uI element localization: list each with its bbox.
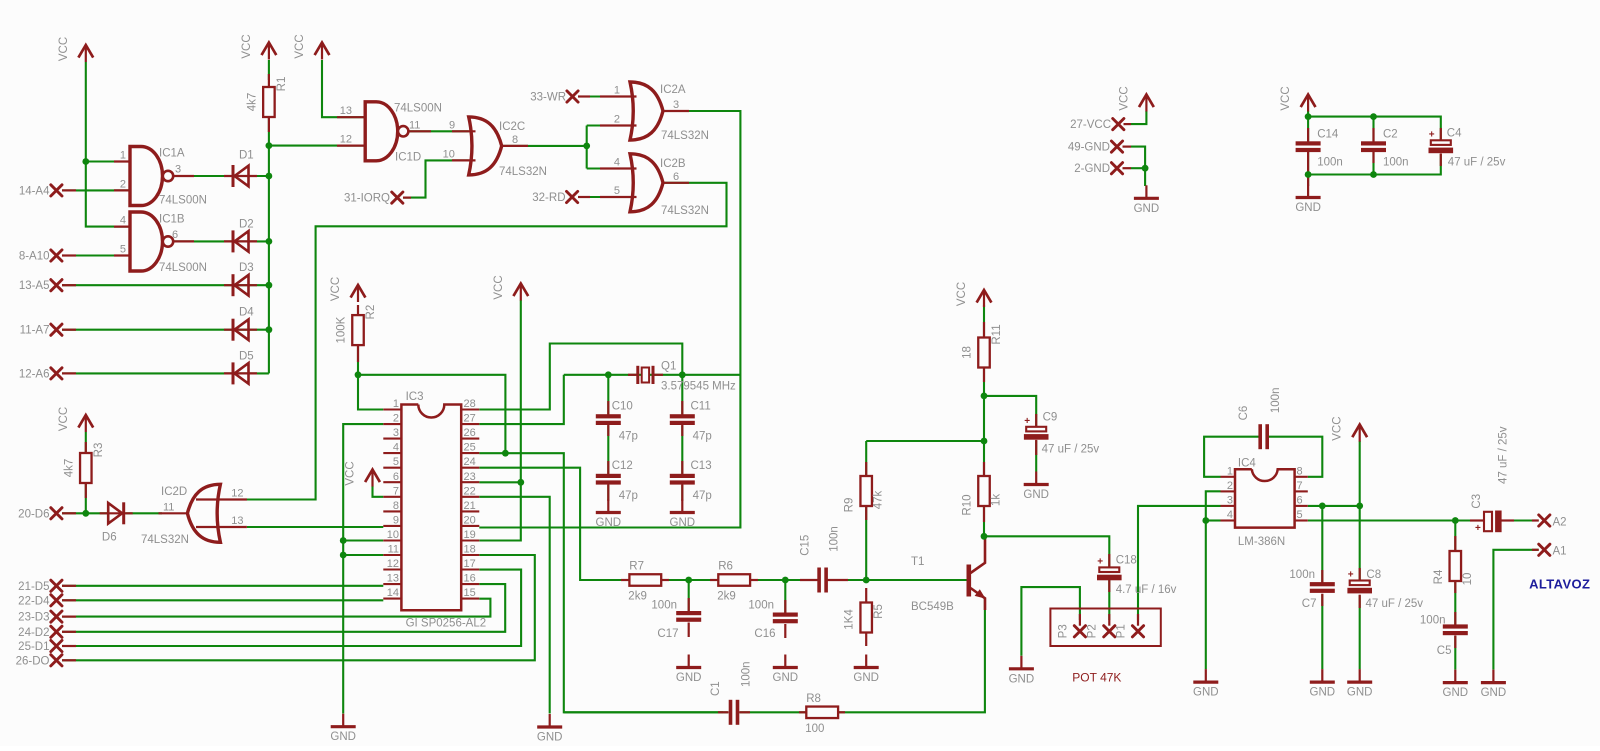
svg-text:C15: C15 <box>800 535 812 556</box>
wire R10 bottom to collector <box>983 507 985 536</box>
IC4 pin 5 stub <box>1295 519 1308 521</box>
IC3 pin 8 stub <box>383 510 401 512</box>
IC3 pin 1 stub <box>383 408 401 410</box>
wire IC3 pin2 to GND line <box>343 424 383 713</box>
svg-text:100n: 100n <box>1420 615 1446 627</box>
svg-text:R9: R9 <box>844 498 856 513</box>
svg-text:21: 21 <box>464 500 476 512</box>
svg-text:12: 12 <box>231 488 243 500</box>
C3 lead2 <box>1501 519 1514 521</box>
wire IC3 pin28 loop over crystal <box>479 344 682 410</box>
pin 22-D4 <box>51 595 62 606</box>
svg-text:1: 1 <box>614 85 620 97</box>
C14 lead <box>1307 128 1309 142</box>
svg-text:D5: D5 <box>239 350 254 362</box>
node vcc9-node <box>1356 503 1363 510</box>
node C14-top <box>1305 113 1312 120</box>
R4 lead2 <box>1454 579 1456 593</box>
capacitor C12 <box>596 474 621 478</box>
wire C7 riser <box>1321 506 1323 582</box>
svg-text:10: 10 <box>443 148 455 160</box>
svg-text:C17: C17 <box>657 628 678 640</box>
IC3 pin 28 stub <box>461 408 479 410</box>
svg-text:POT 47K: POT 47K <box>1072 671 1121 685</box>
IC4 pin 2 stub <box>1221 490 1236 492</box>
wire VCC shaft to R3 <box>85 432 87 453</box>
wire IC1B out to D2 <box>171 240 269 242</box>
wire D6 to IC2D pin11 <box>126 512 163 514</box>
ground GND9 <box>1310 669 1336 699</box>
net stub <box>62 585 76 587</box>
svg-text:C6: C6 <box>1238 406 1250 421</box>
svg-text:6: 6 <box>1297 494 1303 506</box>
svg-text:47 uF / 25v: 47 uF / 25v <box>1366 598 1424 610</box>
pin A1 <box>1539 544 1550 555</box>
svg-text:24-D2: 24-D2 <box>18 627 49 639</box>
svg-text:+: + <box>1097 556 1103 567</box>
svg-text:R4: R4 <box>1433 569 1445 584</box>
33-WR stub <box>578 95 590 97</box>
svg-text:100: 100 <box>805 723 824 735</box>
svg-text:C9: C9 <box>1043 412 1058 424</box>
svg-text:7: 7 <box>1297 480 1303 492</box>
C2 lead2 <box>1372 151 1374 163</box>
svg-text:5: 5 <box>393 456 399 468</box>
svg-text:C14: C14 <box>1317 129 1339 141</box>
capacitor C13 <box>670 474 695 478</box>
svg-text:10: 10 <box>1462 573 1474 586</box>
svg-text:100n: 100n <box>828 526 840 552</box>
svg-text:C7: C7 <box>1302 598 1317 610</box>
wire node to IC2B pin4 <box>587 167 630 169</box>
svg-text:6: 6 <box>172 229 178 241</box>
svg-text:4k7: 4k7 <box>246 93 258 112</box>
svg-text:IC1B: IC1B <box>159 214 185 226</box>
svg-text:IC2C: IC2C <box>499 121 525 133</box>
pin P3 <box>1074 626 1085 637</box>
pin 13-A5 <box>51 280 62 291</box>
node IC2C-out <box>583 143 590 150</box>
wire net 33-WR to IC2A pin1 <box>578 95 630 97</box>
wire net 21-D5 to IC3 pin13 <box>62 585 383 587</box>
ground GND1 <box>330 714 356 744</box>
svg-text:2-GND: 2-GND <box>1074 163 1110 175</box>
svg-text:32-RD: 32-RD <box>532 192 565 204</box>
IC3 pin 18 stub <box>461 554 479 556</box>
R8 leads <box>799 711 808 713</box>
C5 lead2 <box>1454 636 1456 649</box>
svg-text:IC1A: IC1A <box>159 148 185 160</box>
node pin11-node <box>340 552 347 559</box>
IC3 pin 17 stub <box>461 568 479 570</box>
svg-text:5: 5 <box>1297 509 1303 521</box>
R8 lead2 <box>837 711 846 713</box>
wire 2-GND pin to node <box>1131 167 1145 169</box>
wire IC3 pin27 riser <box>479 375 564 424</box>
C2 lead <box>1372 128 1374 142</box>
pin 23-D3 <box>51 611 62 622</box>
svg-text:3: 3 <box>673 99 679 111</box>
wire R9 top to R10 node <box>866 440 984 442</box>
Q1 lead2 <box>653 374 663 376</box>
svg-text:1: 1 <box>393 398 399 410</box>
svg-text:24: 24 <box>464 456 476 468</box>
wire IC4 pin2 to GND rail <box>1206 491 1221 669</box>
wire IC2A out down to IC3 pin20 <box>479 111 740 528</box>
IC1D pin13 lead <box>337 116 366 118</box>
svg-text:C4: C4 <box>1447 128 1462 140</box>
wire C10 top lead <box>607 375 609 414</box>
svg-text:VCC: VCC <box>58 407 70 431</box>
svg-text:25-D1: 25-D1 <box>18 641 49 653</box>
svg-text:VCC: VCC <box>1332 416 1344 440</box>
pin P1 <box>1132 626 1143 637</box>
wire C14 bottom lead <box>1307 151 1309 184</box>
svg-text:8: 8 <box>1297 465 1303 477</box>
svg-text:100n: 100n <box>1270 388 1282 414</box>
supply VCC3 <box>294 34 329 59</box>
net stub <box>62 645 76 647</box>
diode D6 <box>100 512 133 514</box>
R9 lead2 <box>865 507 867 521</box>
svg-text:Q1: Q1 <box>661 361 676 373</box>
pin 33-WR <box>567 91 578 102</box>
C15 lead2 <box>827 579 848 581</box>
wire R7 to R6 <box>661 579 718 581</box>
diode D4 <box>224 329 257 331</box>
svg-text:13: 13 <box>231 515 243 527</box>
svg-text:100n: 100n <box>1317 157 1343 169</box>
svg-text:GND: GND <box>1443 687 1469 699</box>
IC2B pin6 lead <box>662 182 690 184</box>
svg-text:GND: GND <box>1295 202 1321 214</box>
resistor R4 <box>1450 551 1462 581</box>
svg-text:IC2D: IC2D <box>161 486 187 498</box>
C1 lead2 <box>739 711 750 713</box>
IC2C pin8 lead <box>500 145 528 147</box>
R3 lead2 <box>85 483 87 498</box>
C4 lead2 <box>1440 154 1442 167</box>
svg-text:R6: R6 <box>718 561 733 573</box>
net stub <box>62 329 76 331</box>
supply VCC6 <box>493 275 528 300</box>
wire GND rail to IC4 pin4 <box>1206 519 1221 521</box>
wire net 12-A6 through D5 <box>62 372 269 374</box>
svg-text:D4: D4 <box>239 307 254 319</box>
capacitor C15 <box>817 568 821 593</box>
R1 leads <box>268 74 270 87</box>
wire C6 left leg <box>1204 437 1259 477</box>
diode D5 <box>224 372 257 374</box>
IC3 pin 13 stub <box>383 583 401 585</box>
R5 leads <box>865 588 867 603</box>
svg-text:22: 22 <box>464 485 476 497</box>
svg-text:2: 2 <box>1227 480 1233 492</box>
wire 49-GND pin to GND <box>1131 147 1145 186</box>
wire IC4 pin5 output <box>1308 519 1484 521</box>
svg-text:C2: C2 <box>1383 129 1398 141</box>
wire net 31-IORQ to IC2C pin10 <box>403 160 469 197</box>
svg-text:100n: 100n <box>748 600 774 612</box>
svg-text:2: 2 <box>120 178 126 190</box>
svg-text:6: 6 <box>673 171 679 183</box>
ground GND4 <box>773 655 799 685</box>
C18 lead <box>1108 554 1110 568</box>
wire C13 to GND <box>681 485 683 500</box>
wire R2 node down to IC3 pin1 <box>358 375 383 410</box>
svg-text:R8: R8 <box>806 693 821 705</box>
ground GND3 <box>676 655 702 685</box>
node C9-node <box>981 393 988 400</box>
wire net 11-A7 through D4 <box>62 329 269 331</box>
svg-text:47 uF / 25v: 47 uF / 25v <box>1448 157 1506 169</box>
wire R3 bottom to D6 node <box>85 483 87 513</box>
R2 lead2 <box>357 345 359 362</box>
IC1B pin5 lead <box>114 254 131 256</box>
pin 14-A4 <box>51 185 62 196</box>
IC4 pin 1 stub <box>1221 476 1236 478</box>
svg-text:GND: GND <box>1023 489 1049 501</box>
resistor R7 <box>629 574 661 586</box>
ground GND16 <box>670 500 696 530</box>
node pin10-node <box>340 537 347 544</box>
IC4 pin 6 stub <box>1295 505 1308 507</box>
wire VCC to IC1D pin13 <box>322 60 365 117</box>
C13 lead2 <box>681 485 683 502</box>
pin 11-A7 <box>51 324 62 335</box>
wire GND line to IC3 pin11 <box>343 554 383 556</box>
wire VCC to 27-VCC pin <box>1131 111 1146 124</box>
wire output node to R4 <box>1454 521 1456 551</box>
svg-text:100K: 100K <box>336 316 348 343</box>
wire net 32-RD to IC2B pin5 <box>578 196 630 198</box>
node VCC-pin1 <box>82 158 89 165</box>
svg-text:GND: GND <box>1481 687 1507 699</box>
capacitor C9 <box>1026 427 1046 432</box>
pin 21-D5 <box>51 580 62 591</box>
svg-text:R3: R3 <box>93 443 105 458</box>
wire VCC shaft to IC3 pin23 <box>520 300 522 482</box>
IC3 pin 11 stub <box>383 554 401 556</box>
svg-text:C13: C13 <box>691 460 712 472</box>
svg-text:VCC: VCC <box>58 37 70 61</box>
supply VCC2 <box>241 34 276 59</box>
net stub <box>62 254 76 256</box>
node R7R6-node <box>685 577 692 584</box>
svg-text:A2: A2 <box>1553 516 1567 528</box>
svg-text:C12: C12 <box>612 460 633 472</box>
node xtal-right <box>679 371 686 378</box>
wire IC3 pin24 to R7 <box>479 468 629 580</box>
wire C16 top lead <box>784 580 786 613</box>
pin 25-D1 <box>51 640 62 651</box>
capacitor C16 <box>773 613 798 617</box>
capacitor C4 <box>1431 140 1451 145</box>
wire P1 to IC4 pin3 <box>1138 506 1221 620</box>
supply VCC1 <box>58 37 93 62</box>
svg-text:GND: GND <box>853 672 879 684</box>
capacitor C7 <box>1310 582 1335 586</box>
resistor R10 <box>978 476 990 506</box>
node pin6-node <box>1319 503 1326 510</box>
C8 lead <box>1359 568 1361 582</box>
ground GND12 <box>1481 670 1507 700</box>
diode D3 <box>224 284 257 286</box>
wire C3 to A2 <box>1502 519 1539 521</box>
wire R4 to C5 <box>1454 579 1456 624</box>
gate IC2C <box>469 117 502 175</box>
net stub <box>62 284 76 286</box>
svg-text:GND: GND <box>537 732 563 744</box>
IC3 pin 12 stub <box>383 568 401 570</box>
svg-text:IC3: IC3 <box>406 391 424 403</box>
ground GND6 <box>1023 472 1049 502</box>
svg-text:20-D6: 20-D6 <box>18 508 49 520</box>
capacitor C17 <box>676 611 701 615</box>
gate IC1D <box>365 102 398 161</box>
IC1B pin4 lead <box>114 226 131 228</box>
IC3 pin 22 stub <box>461 496 479 498</box>
svg-text:7: 7 <box>393 485 399 497</box>
supply VCC7 <box>58 407 93 432</box>
svg-text:100n: 100n <box>740 661 752 687</box>
wire node to IC2A pin2 <box>587 124 630 126</box>
pin A2 <box>1539 515 1550 526</box>
wire VCC rail to IC1A pin1 <box>86 160 130 162</box>
IC3 pin 15 stub <box>461 598 479 600</box>
IC3 pin 19 stub <box>461 539 479 541</box>
svg-text:27-VCC: 27-VCC <box>1070 119 1111 131</box>
wire IC3 pin25 to bottom rail <box>479 453 728 712</box>
svg-text:9: 9 <box>393 514 399 526</box>
resistor R9 <box>860 476 872 506</box>
IC2A pin2 lead <box>600 124 637 126</box>
node R2-node <box>355 371 362 378</box>
C17 lead2 <box>688 623 690 638</box>
node C16-node <box>782 577 789 584</box>
C11 lead2 <box>681 425 683 436</box>
svg-text:4.7 uF / 16v: 4.7 uF / 16v <box>1116 584 1177 596</box>
svg-text:26: 26 <box>464 427 476 439</box>
supply VCC10 <box>1118 86 1153 111</box>
pin 2-GND <box>1111 163 1122 174</box>
wire C17 top lead <box>688 580 690 611</box>
pin 26-DO <box>51 655 62 666</box>
IC3 pin 20 stub <box>461 525 479 527</box>
resistor R3 <box>80 453 92 483</box>
IC3 pin 25 stub <box>461 452 479 454</box>
wire R1 bottom to bus node <box>268 117 270 146</box>
ground GND5 <box>853 655 879 685</box>
node pin25-node <box>502 450 509 457</box>
svg-text:11: 11 <box>388 544 399 556</box>
ground GND11 <box>1443 670 1469 700</box>
svg-text:47p: 47p <box>693 490 712 502</box>
wire cap bottom rail <box>1308 154 1441 175</box>
wire C6 right leg <box>1269 437 1323 477</box>
svg-text:21-D5: 21-D5 <box>18 581 49 593</box>
ground GND13 <box>1134 185 1160 215</box>
node bus-R1 <box>266 142 273 149</box>
resistor R2 <box>352 315 364 345</box>
pin 49-GND <box>1111 141 1122 152</box>
node pin23-node <box>517 479 524 486</box>
R10 lead2 <box>983 507 985 523</box>
svg-text:22-D4: 22-D4 <box>18 595 50 607</box>
C10 lead2 <box>607 425 609 436</box>
svg-text:20: 20 <box>464 514 476 526</box>
IC2D pin11 lead <box>159 512 190 514</box>
gate IC1A <box>130 147 163 206</box>
Q1 lead <box>628 374 638 376</box>
R6 lead2 <box>750 579 759 581</box>
svg-text:12: 12 <box>387 558 399 570</box>
IC1A pin3 lead <box>174 175 195 177</box>
wire VCC rail to IC1B pin4 <box>86 62 130 227</box>
svg-text:BC549B: BC549B <box>911 601 954 613</box>
svg-text:4: 4 <box>120 215 126 227</box>
svg-text:12: 12 <box>340 134 352 146</box>
wire C8 to GND <box>1359 595 1361 669</box>
capacitor C3 <box>1484 512 1492 531</box>
wire R6 to C15 <box>750 579 818 581</box>
svg-text:3: 3 <box>393 427 399 439</box>
wire R2 node to IC3 pin25 <box>358 375 505 453</box>
IC3 pin 24 stub <box>461 467 479 469</box>
svg-text:13: 13 <box>340 105 352 117</box>
svg-text:1k: 1k <box>991 494 1003 506</box>
A2 stub <box>1532 519 1539 521</box>
P2 stub <box>1108 614 1110 626</box>
svg-text:R10: R10 <box>962 494 974 515</box>
svg-text:5: 5 <box>614 185 620 197</box>
svg-text:C5: C5 <box>1437 645 1452 657</box>
wire IC3 pin23 wire <box>479 481 521 483</box>
node collector-node <box>981 533 988 540</box>
node 2GND-node <box>1142 165 1149 172</box>
wire C10-C12 link <box>607 425 609 473</box>
svg-text:VCC: VCC <box>345 461 357 485</box>
wire collector node to C18 <box>984 536 1109 567</box>
svg-text:GND: GND <box>1347 687 1373 699</box>
wire VCC shaft to C8 <box>1359 441 1361 581</box>
wire C5 to GND <box>1454 636 1456 670</box>
wire IC1D out to IC2C pin9 <box>408 130 469 132</box>
IC3 pin 27 stub <box>461 423 479 425</box>
svg-text:+: + <box>1475 523 1481 534</box>
IC1B pin6 lead <box>174 240 195 242</box>
svg-text:GND: GND <box>330 731 356 743</box>
svg-text:2k9: 2k9 <box>717 591 736 603</box>
transistor T1 BC549B <box>967 537 986 610</box>
net stub <box>62 372 76 374</box>
svg-text:28: 28 <box>464 398 476 410</box>
svg-text:100n: 100n <box>1383 157 1409 169</box>
svg-text:4: 4 <box>393 442 399 454</box>
IC3 pin 6 stub <box>383 481 401 483</box>
svg-text:31-IORQ: 31-IORQ <box>344 193 390 205</box>
svg-text:2: 2 <box>614 114 620 126</box>
svg-text:P1: P1 <box>1115 624 1127 638</box>
R11 lead2 <box>983 366 985 382</box>
wire R9 bottom lead <box>865 507 867 580</box>
crystal Q1 <box>638 366 653 384</box>
svg-text:IC4: IC4 <box>1238 458 1257 470</box>
IC3 pin 21 stub <box>461 510 479 512</box>
wire IC1A out to D1 <box>171 175 269 177</box>
svg-text:VCC: VCC <box>330 277 342 301</box>
31-IORQ stub <box>403 197 411 199</box>
